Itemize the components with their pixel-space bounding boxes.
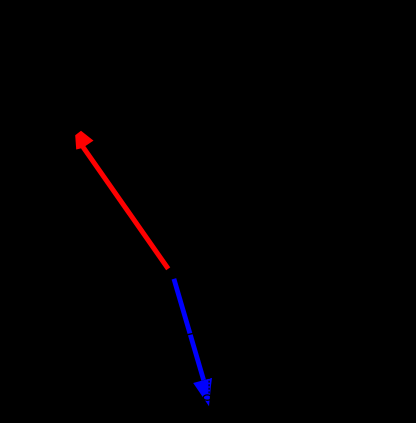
red vector arrowhead: [75, 131, 93, 150]
black notch crossing blue shaft: [187, 333, 194, 335]
blue vector arrowhead: [193, 378, 212, 406]
blue vector arrow shaft: [174, 279, 204, 380]
black string line over blue arrowhead: [208, 377, 210, 394]
red vector arrow shaft: [83, 147, 168, 269]
black ball outline over blue arrowhead tip: [203, 395, 211, 400]
